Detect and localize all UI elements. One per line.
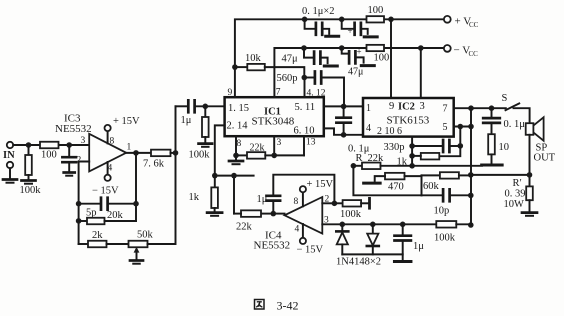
svg-text:10W: 10W — [504, 199, 525, 210]
svg-text:330p: 330p — [384, 142, 405, 153]
svg-text:NE5532: NE5532 — [254, 240, 291, 252]
svg-text:6. 10: 6. 10 — [294, 126, 315, 137]
node pin5/330p branch — [458, 124, 464, 130]
potentiometer 50k — [129, 241, 148, 248]
resistor 22k (IC4 output) — [261, 213, 273, 215]
svg-text:47μ: 47μ — [348, 67, 363, 78]
svg-text:100k: 100k — [20, 185, 42, 196]
svg-text:1μ: 1μ — [257, 194, 268, 205]
wire IC2 pin 5 — [454, 126, 471, 128]
svg-text:OUT: OUT — [534, 153, 556, 164]
resistor 1k (IC2 feedback) — [421, 153, 440, 160]
svg-text:100k: 100k — [340, 209, 362, 220]
svg-text:1: 1 — [127, 143, 132, 153]
op-amp IC3 NE5532 triangle — [89, 134, 126, 172]
node pin 8 — [233, 153, 239, 159]
svg-text:0. 1μ×2: 0. 1μ×2 — [302, 6, 335, 17]
svg-text:100: 100 — [368, 5, 384, 16]
svg-text:5. 11: 5. 11 — [295, 102, 316, 113]
svg-text:R: R — [356, 153, 363, 164]
svg-text:13: 13 — [306, 138, 316, 148]
terminal +Vcc — [444, 16, 451, 23]
svg-text:2 10 6: 2 10 6 — [377, 126, 402, 137]
IC3 +15V supply terminal pin 8 — [107, 131, 109, 143]
svg-text:3: 3 — [420, 101, 425, 112]
+Vcc rail wire from IC1 pin9 — [235, 19, 444, 97]
wire pin3 to pin13 — [274, 154, 304, 156]
svg-text:470: 470 — [388, 182, 404, 193]
svg-text:100k: 100k — [189, 150, 211, 161]
resistor 1k to ground — [214, 176, 216, 188]
rail nodes +Vcc — [302, 17, 308, 23]
svg-text:22k: 22k — [368, 153, 385, 164]
wire IC4 pin 3 line — [322, 223, 436, 225]
node IC4 pin2 — [332, 201, 338, 207]
wire diode return — [342, 253, 402, 255]
wire inverting node line — [215, 175, 254, 177]
potentiometer wiper arrow + ground — [136, 250, 138, 260]
svg-text:1. 15: 1. 15 — [228, 103, 249, 114]
svg-text:1N4148×2: 1N4148×2 — [336, 257, 381, 268]
capacitor 560p — [304, 77, 314, 79]
svg-text:− 15V: − 15V — [92, 186, 119, 197]
resistor 20k feedback — [79, 220, 87, 222]
svg-text:0. 1μ: 0. 1μ — [504, 119, 526, 130]
IC1 pin 4.12 stub wire — [304, 78, 306, 98]
resistor 10k — [235, 66, 247, 68]
terminal -Vcc — [444, 45, 451, 52]
wire IC1 pin 6.10 to IC2 pin 4 — [324, 128, 363, 134]
node A (input) — [26, 142, 32, 148]
wire IC1 pin 2.14 — [215, 125, 225, 175]
wire -Vcc to IC2 pin 3 — [420, 48, 422, 98]
svg-text:3: 3 — [81, 136, 86, 146]
ground tick (100k pin2) — [368, 198, 371, 208]
decoupling capacitor 0.1u on +Vcc — [305, 19, 315, 29]
ground (100k input) — [22, 179, 36, 182]
wire IC3 pin2 to feedback rail — [79, 162, 90, 245]
ground (R-prime) — [522, 211, 537, 214]
ground (input cap) — [64, 171, 75, 174]
svg-text:60k: 60k — [423, 181, 440, 192]
svg-text:20k: 20k — [107, 210, 124, 221]
IC1 pin 8 stub — [235, 136, 237, 155]
IC3 -15V supply terminal pin 4 — [107, 162, 109, 175]
svg-text:8: 8 — [294, 197, 299, 207]
ground (pin 8) — [235, 155, 237, 159]
switch S to speaker wire — [514, 108, 530, 123]
wire 60k/10p left vertical — [421, 175, 423, 195]
svg-text:9: 9 — [389, 101, 394, 112]
svg-text:STK6153: STK6153 — [387, 115, 430, 127]
wire 50k to coupling node — [148, 106, 176, 244]
svg-text:7: 7 — [276, 88, 281, 98]
resistor 7.6k — [151, 150, 171, 157]
ground (470) — [364, 182, 381, 185]
svg-text:+ 15V: + 15V — [307, 179, 334, 190]
wire IC3 output feedback vertical — [135, 153, 137, 221]
capacitor 5p — [79, 203, 100, 205]
-Vcc rail wire from IC1 pin7 — [274, 48, 444, 97]
ground (1k) — [207, 211, 222, 214]
ground (1u clamp) — [394, 260, 411, 263]
svg-text:47μ: 47μ — [282, 54, 299, 65]
svg-text:10k: 10k — [245, 53, 262, 64]
node 100k bias — [203, 104, 209, 110]
resistor R 22k feedback — [353, 165, 362, 167]
wire IC4 out riser — [233, 176, 235, 214]
svg-text:IN: IN — [3, 150, 15, 161]
resistor 100k (input shunt) — [28, 145, 30, 155]
resistor 100 (series input) — [40, 142, 59, 149]
svg-text:1μ: 1μ — [413, 241, 424, 252]
svg-text:1: 1 — [366, 103, 371, 114]
node 1k — [409, 153, 415, 159]
node pin 3 — [271, 153, 277, 159]
op-amp IC4 NE5532 triangle — [285, 197, 323, 234]
resistor 100 on -Vcc rail — [367, 45, 385, 51]
svg-text:CC: CC — [469, 21, 479, 29]
node IC3 output — [133, 150, 139, 156]
resistor 470 — [385, 173, 405, 180]
node output/feedback — [468, 105, 474, 111]
capacitor 1u (IC4 output to pin2) — [273, 175, 334, 204]
IC1 pin 13 stub — [303, 136, 305, 155]
capacitor 0.1u interstage — [343, 106, 345, 116]
ground (input jack) — [3, 178, 17, 181]
resistor 100k (feedback to IC4 pin3) — [436, 221, 456, 228]
svg-text:2k: 2k — [92, 230, 103, 241]
svg-text:IC2: IC2 — [398, 102, 415, 113]
wire IC1 pin 5.11 to IC2 pin 1 — [324, 105, 363, 107]
svg-text:8: 8 — [110, 137, 115, 147]
resistor 100 on +Vcc rail — [367, 16, 385, 22]
svg-text:100k: 100k — [434, 233, 456, 244]
svg-text:+: + — [348, 26, 353, 36]
svg-text:2. 14: 2. 14 — [227, 121, 249, 132]
svg-text:560p: 560p — [277, 73, 298, 84]
input terminal IN (signal) — [7, 142, 13, 148]
svg-text:CC: CC — [469, 50, 479, 58]
IC4 -15V supply — [302, 224, 304, 238]
zobel capacitor 0.1u — [491, 108, 493, 117]
resistor 60k — [422, 174, 440, 176]
svg-text:3-42: 3-42 — [277, 299, 299, 313]
diode D1 1N4148 — [341, 224, 343, 231]
wire output sense line to R-prime — [471, 174, 530, 176]
svg-text:1μ: 1μ — [181, 115, 192, 126]
caption hanzi TU (figure) — [255, 300, 265, 310]
wire R 22k to zobel ground — [381, 165, 483, 167]
node R-prime top — [527, 172, 533, 178]
wire 330p branch vertical — [459, 127, 461, 146]
svg-text:100: 100 — [374, 53, 390, 64]
capacitor 1u clamp — [402, 224, 404, 234]
capacitor 330p — [412, 145, 442, 147]
wire +Vcc to IC2 pin 9 — [390, 19, 392, 98]
node interstage cap bottom — [341, 132, 347, 138]
wire IC4 output — [273, 213, 284, 215]
node output/zobel — [489, 105, 495, 111]
svg-text:STK3048: STK3048 — [252, 116, 295, 128]
svg-text:5: 5 — [443, 122, 448, 133]
node pin2/5p — [76, 201, 82, 207]
svg-text:10: 10 — [499, 142, 510, 153]
node R 22k left — [351, 163, 357, 169]
speaker SP OUT — [526, 123, 534, 135]
svg-text:100: 100 — [41, 150, 57, 161]
node 10k tap — [232, 64, 238, 70]
wire IC2 pin 7 output — [454, 107, 506, 109]
wire IC4 pin 2 — [322, 202, 334, 204]
wire R node down to 10p row — [353, 166, 421, 196]
IC4 +15V supply — [302, 192, 304, 206]
svg-text:NE5532: NE5532 — [55, 123, 92, 135]
svg-text:22k: 22k — [250, 143, 265, 154]
wire speaker to R-prime node — [529, 135, 531, 187]
svg-text:4: 4 — [295, 225, 300, 235]
rail nodes -Vcc — [301, 45, 307, 51]
IC1 STK3048 box — [225, 97, 324, 136]
svg-text:22k: 22k — [236, 222, 253, 233]
node 560p — [302, 75, 308, 81]
ground (100k bias) — [199, 142, 213, 145]
node pin2/20k — [76, 218, 82, 224]
svg-text:7: 7 — [443, 104, 448, 115]
switch S blade — [506, 103, 520, 110]
capacitor 1u coupling to IC1 — [176, 105, 188, 107]
svg-text:R′: R′ — [513, 178, 522, 189]
wire IC3 output — [126, 152, 151, 154]
input ground terminal — [7, 162, 13, 168]
svg-text:+: + — [357, 47, 362, 57]
svg-text:+ 15V: + 15V — [113, 116, 140, 127]
node B (IC3 +input) — [66, 142, 72, 148]
svg-text:3: 3 — [277, 138, 282, 148]
decoupling capacitor 47u on -Vcc — [304, 48, 313, 58]
capacitor input filter — [68, 145, 70, 156]
zobel resistor 10 — [488, 134, 495, 154]
svg-text:0. 39: 0. 39 — [505, 189, 526, 200]
capacitor 10p — [422, 194, 443, 196]
resistor 100k (IC1 input bias) — [204, 106, 206, 117]
svg-text:9: 9 — [228, 88, 233, 98]
resistor 2k — [79, 243, 88, 245]
IC2 STK6153 box — [363, 98, 454, 137]
svg-text:10p: 10p — [434, 206, 450, 217]
wire IC2 bottom pins 2 10 6 — [411, 137, 413, 166]
svg-text:4: 4 — [366, 123, 371, 134]
resistor R-prime 0.39 10W — [526, 186, 533, 200]
svg-text:− 15V: − 15V — [297, 245, 324, 256]
svg-text:50k: 50k — [137, 230, 154, 241]
IC1 pin 3 stub — [273, 136, 275, 155]
decoupling capacitor 47u electrolytic on -Vcc — [342, 48, 348, 54]
zobel ground bar — [482, 164, 503, 167]
wire 1k branch — [439, 146, 460, 156]
node 7.6k junction — [173, 150, 179, 156]
decoupling capacitor 47u electrolytic on +Vcc — [342, 19, 354, 29]
svg-text:8: 8 — [237, 139, 242, 149]
resistor 100k (IC4 pin2) — [334, 202, 342, 204]
node interstage cap top — [341, 104, 347, 110]
svg-text:1k: 1k — [189, 192, 200, 203]
svg-text:S: S — [502, 93, 508, 104]
node IC4 output — [271, 211, 277, 217]
svg-text:7. 6k: 7. 6k — [143, 159, 165, 170]
feedback vertical wire from pin7 — [470, 108, 472, 225]
resistor 22k (IC1 bottom) — [236, 154, 247, 156]
svg-text:4. 12: 4. 12 — [307, 89, 326, 99]
diode D2 1N4148 — [372, 224, 374, 233]
